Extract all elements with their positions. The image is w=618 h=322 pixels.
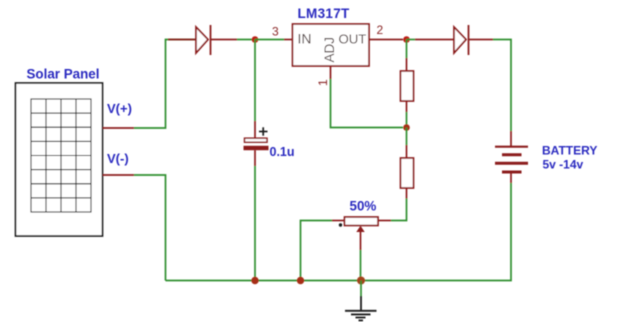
potentiometer RV1 wiper lead (360, 231, 362, 250)
wire node to R1 (406, 40, 408, 59)
wire pin1 to ADJ node (331, 79, 404, 128)
pin 2 stub (369, 39, 403, 41)
svg-text:3: 3 (272, 25, 279, 39)
junction node C1/bottom rail (251, 277, 258, 284)
resistor R1 top lead (406, 58, 408, 71)
svg-text:50%: 50% (350, 199, 377, 214)
battery BT1 plate short 1 (502, 153, 522, 156)
svg-text:2: 2 (377, 23, 384, 37)
potentiometer RV1 body (345, 217, 379, 226)
wire V(+) to riser (134, 40, 196, 129)
svg-text:V(-): V(-) (107, 151, 129, 166)
pin stub V(+) (103, 127, 135, 129)
potentiometer RV1 wiper arrow (356, 226, 364, 232)
junction node at pin2/R1/D2 (403, 36, 410, 43)
diode D2 triangle (454, 27, 466, 53)
op-amp U1 LM317T body (293, 24, 370, 66)
wire R1 to ADJ node (406, 112, 408, 128)
capacitor C1 top plate (245, 138, 268, 142)
capacitor C1 top lead (254, 121, 256, 138)
pin 3 stub (284, 39, 293, 41)
potentiometer RV1 left lead (332, 220, 345, 222)
capacitor C1 plus sign (259, 127, 268, 135)
wire battery to bottom rail (166, 183, 512, 281)
wire node to pin 3 (255, 39, 284, 41)
junction node ground/bottom rail (357, 277, 365, 285)
svg-text:5v -14v: 5v -14v (543, 158, 584, 172)
wire node to R2 (406, 128, 408, 146)
ground stem wire (360, 281, 362, 297)
diode D2 cathode lead (469, 39, 494, 41)
battery BT1 plate long 1 (495, 146, 528, 148)
battery BT1 plate long 2 (495, 162, 528, 165)
wire capacitor to bottom rail (254, 166, 256, 281)
resistor R2 top lead (406, 145, 408, 158)
svg-text:IN: IN (298, 31, 312, 47)
diode D1 cathode lead (211, 39, 238, 41)
wire D2 to battery branch (493, 40, 511, 132)
svg-text:ADJ: ADJ (322, 37, 337, 63)
resistor R2 bottom lead (406, 188, 408, 199)
resistor R1 bottom lead (406, 101, 408, 112)
svg-text:OUT: OUT (339, 32, 367, 47)
diode D1 anode lead (168, 39, 196, 41)
svg-text:0.1u: 0.1u (270, 145, 295, 159)
junction node pot-left/bottom rail (297, 277, 304, 284)
wire wiper to bottom rail (360, 250, 362, 281)
battery BT1 plate short 2 (502, 171, 522, 174)
solar panel PV1 cell grid (31, 99, 91, 212)
battery BT1 bottom lead (510, 174, 512, 184)
wire D1 to node (237, 39, 255, 41)
capacitor C1 bottom lead (254, 150, 256, 166)
capacitor C1 bottom plate (244, 146, 269, 150)
svg-text:LM317T: LM317T (298, 6, 351, 21)
junction node at D1/LM317/C1 (252, 36, 259, 43)
ground symbol (345, 296, 377, 320)
svg-text:V(+): V(+) (107, 101, 132, 116)
wire node to capacitor (254, 40, 256, 122)
svg-text:1: 1 (316, 79, 330, 86)
diode D2 anode lead (415, 39, 454, 41)
svg-text:BATTERY: BATTERY (542, 144, 597, 158)
pin 1 stub (330, 66, 332, 79)
junction node ADJ/R1/R2 (403, 124, 410, 131)
resistor R2 body (401, 158, 414, 188)
diode D1 cathode bar (210, 25, 212, 55)
pin stub V(-) (103, 174, 135, 176)
svg-text:Solar Panel: Solar Panel (27, 67, 100, 82)
wire V(-) to bottom rail (134, 175, 166, 281)
potentiometer RV1 right lead (378, 220, 391, 222)
battery BT1 top lead (510, 131, 512, 146)
solar panel PV1 body (16, 83, 103, 236)
wire node to D2 (407, 39, 416, 41)
diode D2 cathode bar (468, 25, 470, 55)
wire R2 to potentiometer right (391, 199, 407, 221)
potentiometer RV1 pin1 marker dot (339, 223, 342, 226)
wire pot left to bottom rail (301, 221, 333, 281)
diode D1 triangle (196, 27, 208, 53)
resistor R1 body (401, 71, 414, 101)
